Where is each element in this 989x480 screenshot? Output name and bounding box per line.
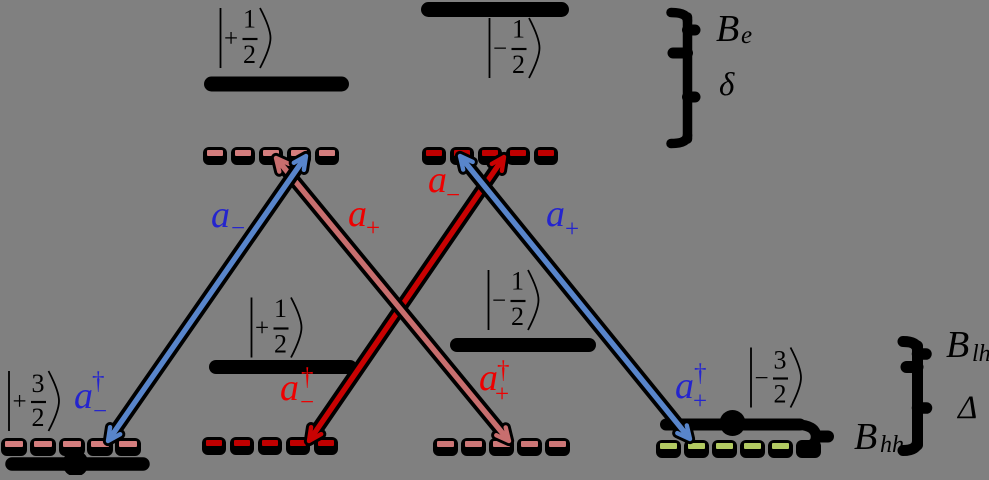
brace B_lh [903,342,926,446]
svg-text:+: + [565,216,579,243]
svg-text:e: e [741,22,752,49]
svg-text:B: B [946,324,969,366]
ket |+1/2> electron [221,5,271,70]
svg-text:δ: δ [719,67,735,103]
svg-text:1: 1 [511,267,524,296]
label B_lh [946,324,989,367]
svg-text:Δ: Δ [956,390,977,426]
level line electron |+1/2> solid [212,77,342,92]
svg-text:a: a [348,193,367,235]
svg-text:−: − [492,288,506,315]
svg-text:†: † [694,360,707,387]
label a+ blue [546,193,579,243]
svg-text:+: + [366,215,380,242]
svg-text:1: 1 [512,15,525,44]
svg-text:1: 1 [274,294,287,323]
svg-text:+: + [224,26,238,53]
brace Delta [903,408,927,451]
ket |+1/2> hole [252,294,302,359]
svg-text:+: + [13,389,27,416]
label B_hh [854,416,904,458]
svg-text:−: − [231,215,245,242]
svg-text:B: B [716,8,739,50]
dashed level hole |-1/2> (salmon) [433,438,570,456]
label a+dagger blue [675,360,707,415]
svg-text:2: 2 [274,330,287,359]
arrow a- dark red (|+1/2>h to |-1/2>e) [309,157,504,441]
svg-text:hh: hh [880,432,904,458]
label a-dagger blue [74,368,107,425]
svg-text:1: 1 [243,5,256,34]
dashed level hole |+1/2> (red) [202,437,338,455]
svg-text:a: a [546,193,565,235]
brace B_e [671,13,695,140]
svg-text:a: a [211,194,230,236]
label a+ red [348,193,380,242]
svg-text:lh: lh [972,341,989,367]
label a+dagger red [479,357,510,408]
label B_e [716,8,752,50]
svg-text:3: 3 [774,346,787,375]
label a- blue [211,194,245,242]
svg-text:a: a [428,159,447,201]
svg-text:†: † [301,364,314,391]
svg-text:3: 3 [32,369,45,398]
svg-text:2: 2 [511,302,524,331]
svg-text:+: + [693,388,707,415]
ket |-3/2> hole [751,346,801,409]
arrow a+ blue (|-1/2>e to |-3/2>h) [460,156,690,439]
svg-text:+: + [255,315,269,342]
svg-text:+: + [495,381,509,408]
svg-text:−: − [300,389,314,416]
level line hole |-1/2> solid [457,338,589,352]
ket |+3/2> hole [9,369,59,432]
ket |-1/2> electron [490,15,540,80]
label a-dagger red [280,364,314,416]
svg-text:a: a [280,367,299,409]
dashed level hole |+3/2> (pink) [1,438,141,456]
svg-text:2: 2 [512,50,525,79]
svg-text:B: B [854,416,877,458]
brace delta [671,97,695,144]
svg-text:2: 2 [32,403,45,432]
svg-text:−: − [93,398,107,425]
svg-text:†: † [92,368,105,395]
level line hole |+3/2> solid with junction dot [12,451,143,477]
svg-text:−: − [755,365,769,392]
svg-text:2: 2 [774,380,787,409]
arrow a+ salmon (|+1/2>e to |-1/2>h) [276,158,509,441]
svg-text:2: 2 [243,40,256,69]
svg-text:−: − [446,182,460,209]
dashed level electron |+1/2> (pink) [203,147,339,165]
level line hole |-3/2> solid with junction dot and hook [666,410,828,446]
level line hole |+1/2> solid [216,360,350,374]
dashed level hole |-3/2> (green) [656,440,821,458]
ket |-1/2> hole [489,267,539,332]
arrow a- blue (|+3/2>h to |+1/2>e) [108,156,306,441]
svg-text:†: † [497,357,510,384]
dashed level electron |-1/2> (red) [422,147,558,165]
label a- red [428,159,460,209]
svg-text:a: a [74,375,93,417]
svg-text:a: a [675,365,694,407]
level line electron |-1/2> solid [429,2,562,17]
svg-text:−: − [493,36,507,63]
